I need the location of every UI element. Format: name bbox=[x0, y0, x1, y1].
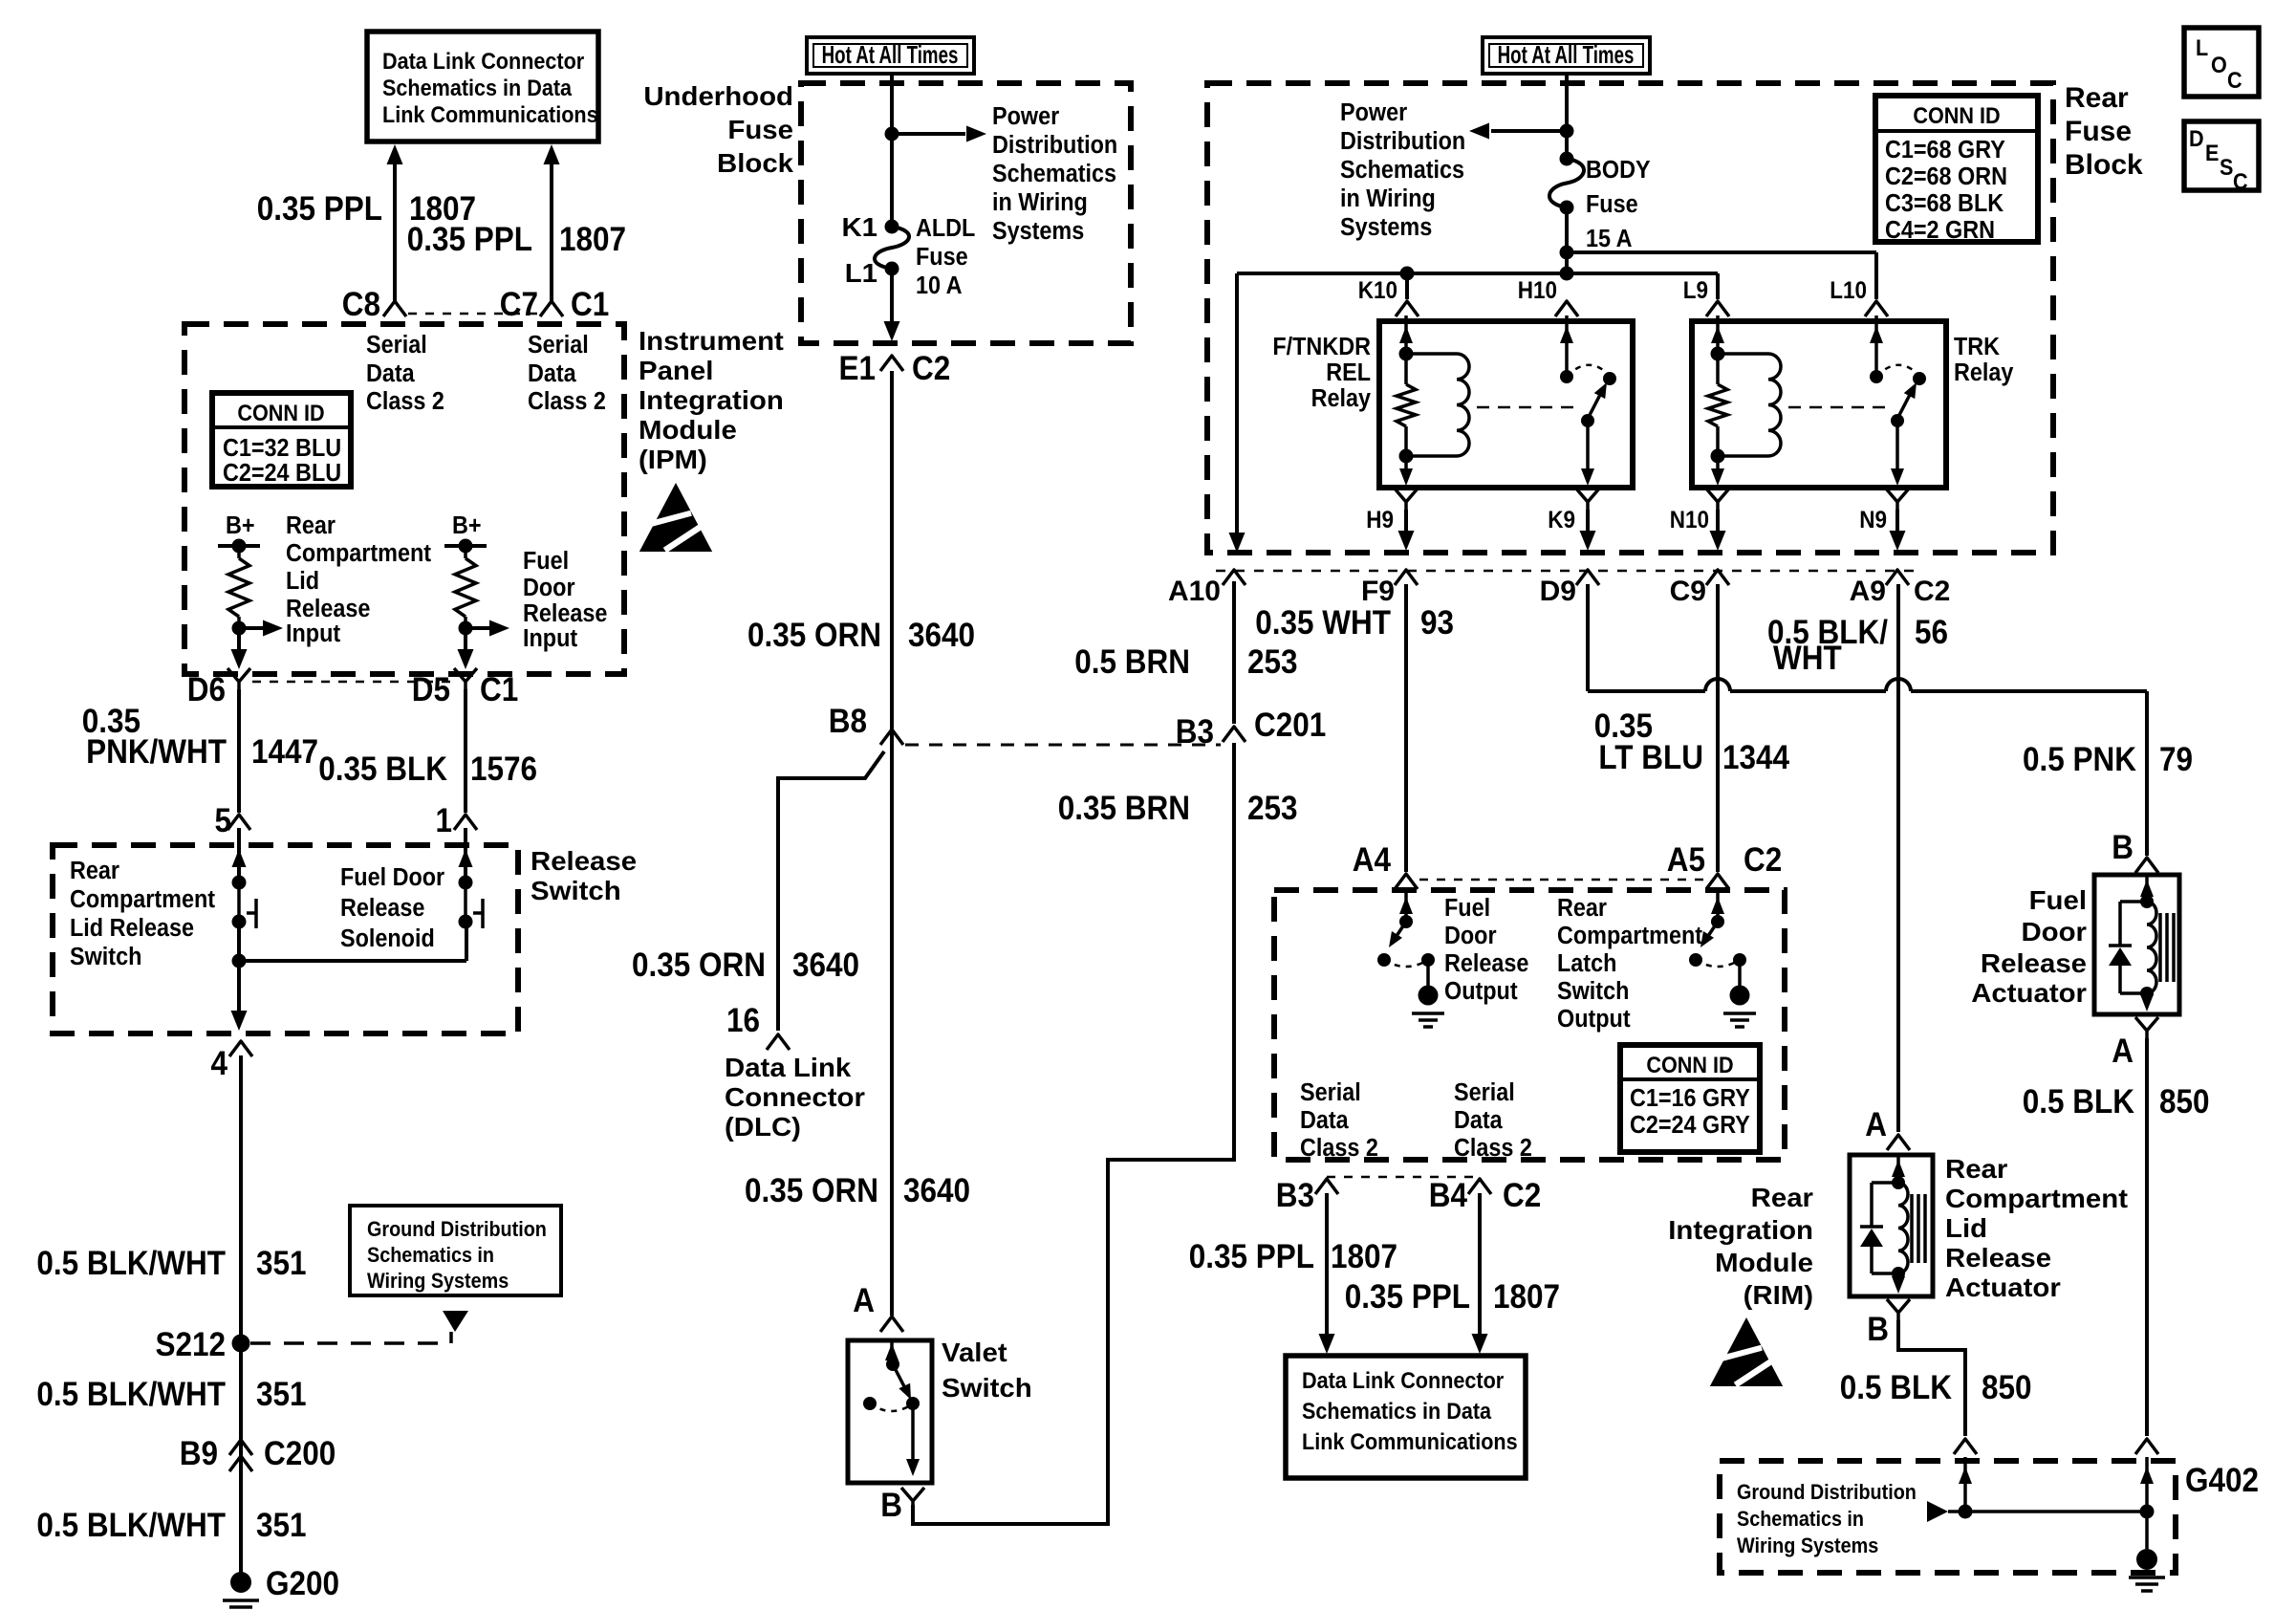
svg-text:0.35 ORN: 0.35 ORN bbox=[632, 947, 766, 985]
pin into G402 from rear lid actuator bbox=[1954, 1439, 1977, 1512]
label Rear Compartment Lid Release Input bbox=[286, 512, 431, 647]
Underhood Fuse Block dashed box bbox=[801, 83, 1131, 343]
svg-text:Serial: Serial bbox=[1454, 1079, 1515, 1106]
svg-text:Module: Module bbox=[1715, 1249, 1813, 1278]
pin A of valet switch bbox=[853, 1283, 903, 1332]
wire label 0.35 PNK/WHT 1447 bbox=[82, 704, 318, 772]
svg-text:Output: Output bbox=[1557, 1006, 1631, 1033]
connector dashed line C8-C7 bbox=[408, 313, 538, 315]
F/TNKDR relay switch bbox=[1560, 315, 1616, 486]
svg-text:Wiring Systems: Wiring Systems bbox=[367, 1270, 509, 1293]
pin F9 bbox=[1361, 570, 1418, 607]
pin A10 bbox=[1168, 570, 1245, 607]
svg-text:Lid: Lid bbox=[1945, 1214, 1987, 1244]
pin 4 of release switch bbox=[210, 1041, 252, 1082]
Valet Switch box bbox=[848, 1340, 932, 1483]
svg-text:C200: C200 bbox=[264, 1436, 336, 1473]
svg-text:G402: G402 bbox=[2185, 1463, 2259, 1500]
svg-text:(RIM): (RIM) bbox=[1744, 1281, 1813, 1311]
pin A5 of RIM connector C2 bbox=[1667, 842, 1783, 889]
svg-text:Compartment: Compartment bbox=[1557, 923, 1702, 949]
svg-text:C: C bbox=[2233, 168, 2248, 194]
wire label 0.35 BRN 253 bbox=[1058, 791, 1298, 828]
F/TNKDR REL Relay title bbox=[1272, 334, 1371, 412]
svg-text:Distribution: Distribution bbox=[1340, 128, 1465, 155]
svg-text:F/TNKDR: F/TNKDR bbox=[1272, 334, 1371, 360]
svg-text:Solenoid: Solenoid bbox=[340, 925, 435, 952]
pin L10 of rear fuse block bbox=[1830, 277, 1888, 316]
svg-text:A4: A4 bbox=[1353, 842, 1392, 880]
svg-text:B3: B3 bbox=[1176, 714, 1214, 751]
svg-text:Switch: Switch bbox=[531, 877, 621, 906]
rear compartment lid release switch contacts bbox=[232, 828, 257, 929]
wire label 0.5 BLK 850 (fuel door actuator) bbox=[2023, 1084, 2210, 1121]
svg-text:Door: Door bbox=[523, 575, 575, 601]
svg-text:Data Link Connector: Data Link Connector bbox=[1302, 1367, 1504, 1393]
svg-text:Schematics in Data: Schematics in Data bbox=[382, 75, 572, 100]
svg-text:0.35 ORN: 0.35 ORN bbox=[745, 1173, 878, 1210]
svg-text:Release: Release bbox=[531, 847, 637, 877]
Hot At All Times callout (underhood) bbox=[807, 37, 974, 74]
svg-text:Serial: Serial bbox=[366, 332, 427, 359]
svg-text:D: D bbox=[2189, 125, 2204, 151]
svg-text:Systems: Systems bbox=[992, 218, 1084, 245]
svg-text:0.5 BLK/WHT: 0.5 BLK/WHT bbox=[36, 1508, 226, 1545]
power distribution tap arrow bbox=[892, 126, 986, 142]
label Serial Data Class 2 (RIM B3) bbox=[1300, 1079, 1378, 1162]
pin 5 of release switch bbox=[214, 803, 250, 840]
wire from ALDL fuse to E1 with down arrow bbox=[884, 269, 900, 341]
fuel door release output switch (RIM) bbox=[1377, 889, 1444, 1027]
svg-text:S212: S212 bbox=[155, 1327, 226, 1364]
svg-text:Switch: Switch bbox=[1557, 978, 1629, 1005]
svg-text:Release: Release bbox=[523, 600, 607, 627]
wire from switch common to pin 4 with down arrow bbox=[231, 961, 248, 1031]
B+ supply for rear compartment lid release input bbox=[218, 512, 260, 554]
svg-text:Class 2: Class 2 bbox=[1454, 1135, 1532, 1162]
pin B of rear compartment lid release actuator bbox=[1867, 1299, 1910, 1348]
svg-text:Data: Data bbox=[528, 360, 576, 387]
wire label 0.5 BLK/WHT 56 bbox=[1767, 615, 1948, 678]
wire B4 to data link schematics box bbox=[1472, 1193, 1488, 1354]
Rear Integration Module (RIM) dashed box bbox=[1274, 890, 1785, 1160]
ground G200 bbox=[223, 1566, 339, 1610]
svg-text:0.35 WHT: 0.35 WHT bbox=[1255, 605, 1391, 642]
label Fuel Door Release Input bbox=[523, 548, 607, 652]
pin B3 of RIM bbox=[1276, 1178, 1338, 1215]
Release Switch title bbox=[531, 847, 637, 906]
wire B3 to pin A10 bbox=[1232, 581, 1236, 724]
svg-text:Hot At All Times: Hot At All Times bbox=[822, 40, 959, 69]
svg-text:0.5 BLK: 0.5 BLK bbox=[1840, 1370, 1952, 1407]
splice S212 with dashed tap line bbox=[155, 1327, 451, 1364]
svg-text:Input: Input bbox=[523, 625, 577, 652]
svg-text:A: A bbox=[2112, 1033, 2134, 1071]
wire label 0.35 PPL 1807 (B3) bbox=[1189, 1239, 1397, 1276]
svg-text:Integration: Integration bbox=[1668, 1216, 1813, 1246]
svg-text:Serial: Serial bbox=[528, 332, 589, 359]
pin A4 of RIM bbox=[1353, 842, 1418, 889]
in-line connector B3 C201 bbox=[1176, 707, 1327, 751]
switch common wire and junction bbox=[232, 922, 467, 968]
svg-text:B: B bbox=[880, 1488, 902, 1525]
svg-text:C1: C1 bbox=[480, 672, 518, 709]
svg-text:10 A: 10 A bbox=[916, 272, 963, 299]
wire label 0.35 WHT 93 bbox=[1255, 605, 1454, 642]
svg-text:E: E bbox=[2205, 140, 2219, 165]
label Rear Compartment Latch Switch Output bbox=[1557, 895, 1702, 1033]
svg-text:Link Communications: Link Communications bbox=[382, 101, 598, 127]
svg-text:1344: 1344 bbox=[1722, 740, 1790, 777]
svg-text:C4=2 GRN: C4=2 GRN bbox=[1885, 217, 1995, 244]
svg-text:C1=68 GRY: C1=68 GRY bbox=[1885, 137, 2005, 163]
svg-text:Rear: Rear bbox=[1751, 1184, 1813, 1213]
svg-text:Connector: Connector bbox=[725, 1083, 865, 1113]
connector dashed line A4-A5 bbox=[1419, 879, 1704, 881]
svg-text:0.5 BLK/WHT: 0.5 BLK/WHT bbox=[36, 1246, 226, 1283]
wire B3 to data link schematics box bbox=[1319, 1193, 1335, 1354]
G402 ground distribution dashed box bbox=[1720, 1461, 2176, 1573]
wire C8 to DLC schematics box with up arrow bbox=[387, 144, 403, 301]
svg-text:S: S bbox=[2220, 154, 2233, 180]
svg-text:K1: K1 bbox=[841, 213, 877, 243]
branch wire to data link connector pin 16 bbox=[778, 751, 884, 1031]
svg-text:Door: Door bbox=[1444, 923, 1497, 949]
pin D6 of IPM bbox=[187, 668, 250, 708]
reference box: Data Link Connector Schematics in Data Link Communications (top left) bbox=[367, 32, 598, 141]
ground G402 symbol bbox=[2129, 1549, 2165, 1591]
wire label 0.5 BLK 850 (rear lid actuator) bbox=[1840, 1370, 2032, 1407]
svg-text:0.35 PPL: 0.35 PPL bbox=[407, 222, 532, 259]
svg-text:1447: 1447 bbox=[251, 734, 318, 772]
svg-text:in Wiring: in Wiring bbox=[1340, 185, 1436, 212]
Rear Integration Module (RIM) title bbox=[1668, 1184, 1813, 1311]
svg-text:A: A bbox=[853, 1283, 875, 1320]
svg-text:Compartment: Compartment bbox=[1945, 1185, 2128, 1214]
svg-text:Ground Distribution: Ground Distribution bbox=[1737, 1481, 1917, 1504]
svg-text:CONN ID: CONN ID bbox=[1913, 102, 2000, 128]
svg-text:Fuse: Fuse bbox=[2065, 116, 2132, 147]
svg-text:Underhood: Underhood bbox=[643, 82, 793, 112]
Instrument Panel Integration Module (IPM) dashed box bbox=[184, 324, 624, 674]
svg-text:16: 16 bbox=[726, 1003, 760, 1040]
label Data Link Connector (DLC) bbox=[725, 1054, 865, 1142]
label G402 bbox=[2185, 1463, 2259, 1500]
svg-text:N9: N9 bbox=[1859, 507, 1887, 533]
wire D9 to fuel door release actuator B (0.5 PNK 79) bbox=[1588, 584, 2147, 856]
svg-text:Output: Output bbox=[1444, 978, 1518, 1005]
svg-text:Fuse: Fuse bbox=[916, 244, 968, 271]
svg-text:Block: Block bbox=[717, 149, 793, 179]
svg-text:0.35 PPL: 0.35 PPL bbox=[1189, 1239, 1314, 1276]
svg-text:A9: A9 bbox=[1850, 576, 1886, 607]
pin H9 of rear fuse block bbox=[1366, 489, 1418, 551]
svg-text:Module: Module bbox=[639, 416, 737, 446]
svg-text:Wiring Systems: Wiring Systems bbox=[1737, 1534, 1878, 1557]
svg-text:Rear: Rear bbox=[286, 512, 336, 539]
svg-text:Data: Data bbox=[1454, 1107, 1503, 1134]
svg-text:C8: C8 bbox=[342, 287, 380, 324]
svg-text:1576: 1576 bbox=[470, 751, 537, 789]
svg-text:Data Link: Data Link bbox=[725, 1054, 851, 1083]
svg-text:0.35 BLK: 0.35 BLK bbox=[318, 751, 447, 789]
ground wire rear lid actuator B to G402 (0.5 BLK 850) bbox=[1898, 1320, 1965, 1436]
svg-text:3640: 3640 bbox=[792, 947, 859, 985]
reference box: Data Link Connector Schematics in Data Link Communications (bottom) bbox=[1286, 1356, 1526, 1478]
label Fuel Door Release Output bbox=[1444, 895, 1528, 1005]
svg-text:B3: B3 bbox=[1276, 1178, 1314, 1215]
CONN ID table (rear fuse block) bbox=[1875, 96, 2038, 244]
svg-text:LT BLU: LT BLU bbox=[1598, 740, 1703, 777]
wire label 0.35 PPL 1807 (B4) bbox=[1345, 1279, 1560, 1316]
svg-text:K10: K10 bbox=[1358, 277, 1397, 304]
svg-text:Instrument: Instrument bbox=[639, 327, 784, 357]
svg-text:D6: D6 bbox=[187, 672, 226, 709]
Fuel Door Release Actuator box bbox=[2094, 875, 2179, 1014]
pin A of rear compartment lid release actuator bbox=[1865, 1107, 1910, 1150]
TRK Relay title bbox=[1954, 334, 2014, 386]
svg-text:C: C bbox=[2227, 67, 2242, 93]
rear compartment lid release actuator coil and diode bbox=[1860, 1155, 1925, 1294]
TRK relay switch bbox=[1870, 315, 1926, 486]
svg-text:C2: C2 bbox=[912, 351, 950, 388]
svg-text:Fuel Door: Fuel Door bbox=[340, 864, 444, 891]
svg-text:B+: B+ bbox=[452, 512, 482, 539]
wire label 0.5 PNK 79 bbox=[2023, 742, 2193, 779]
svg-text:A10: A10 bbox=[1168, 576, 1221, 607]
svg-text:C2: C2 bbox=[1503, 1178, 1541, 1215]
svg-text:1807: 1807 bbox=[559, 222, 626, 259]
wire E1 to valet switch pin A (0.35 ORN 3640) bbox=[890, 371, 894, 1316]
svg-text:C2=24 GRY: C2=24 GRY bbox=[1630, 1112, 1750, 1139]
connector dashed line D6-D5 bbox=[252, 681, 452, 684]
svg-text:1: 1 bbox=[435, 803, 452, 840]
svg-text:B: B bbox=[2112, 830, 2134, 867]
svg-text:C2: C2 bbox=[1914, 576, 1950, 607]
pin K10 of rear fuse block bbox=[1358, 277, 1419, 316]
connector dashed line under rear fuse block bbox=[1216, 570, 1917, 573]
svg-text:0.35 PPL: 0.35 PPL bbox=[1345, 1279, 1470, 1316]
svg-text:Power: Power bbox=[1340, 99, 1408, 126]
rear compartment latch switch output (RIM) bbox=[1689, 889, 1756, 1027]
pin N9 of rear fuse block bbox=[1859, 489, 1909, 551]
Rear Compartment Lid Release Actuator title bbox=[1945, 1155, 2128, 1303]
pin K9 of rear fuse block bbox=[1548, 489, 1599, 551]
svg-text:Serial: Serial bbox=[1300, 1079, 1361, 1106]
pin D5 of IPM connector C1 bbox=[412, 668, 519, 708]
wire D5 to release switch pin 1 bbox=[464, 689, 467, 813]
svg-text:H10: H10 bbox=[1518, 277, 1557, 304]
svg-text:(DLC): (DLC) bbox=[725, 1113, 801, 1142]
svg-text:C1: C1 bbox=[571, 287, 609, 324]
ESD sensitivity symbol (IPM) bbox=[639, 483, 713, 552]
svg-text:Compartment: Compartment bbox=[70, 886, 215, 913]
svg-text:REL: REL bbox=[1326, 359, 1371, 386]
wire label 0.35 ORN 3640 (DLC branch) bbox=[632, 947, 859, 985]
wire valet switch B to rear fuse block A10 via C201 B3 (0.35 BRN 253) bbox=[913, 743, 1234, 1524]
wire label 0.5 BLK/WHT 351 (upper) bbox=[36, 1246, 306, 1283]
pin C9 bbox=[1670, 570, 1729, 607]
svg-text:Fuse: Fuse bbox=[727, 116, 793, 145]
svg-text:3640: 3640 bbox=[903, 1173, 970, 1210]
fuel door release switch contacts bbox=[459, 828, 484, 929]
svg-text:Fuel: Fuel bbox=[523, 548, 569, 575]
wire label 0.35 ORN 3640 (lower) bbox=[745, 1173, 970, 1210]
connector C201 dashed line B8 to B3 bbox=[905, 744, 1221, 747]
svg-text:15 A: 15 A bbox=[1586, 226, 1633, 252]
pin B4 of RIM connector C2 bbox=[1429, 1178, 1542, 1215]
svg-text:C7: C7 bbox=[500, 287, 538, 324]
fuse ALDL 10A between terminals K1 and L1 bbox=[841, 213, 975, 300]
wire label 0.35 PPL 1807 (C8 wire) bbox=[257, 191, 476, 228]
resistor R (rear compartment lid release input pull-up) bbox=[228, 546, 249, 628]
svg-text:Input: Input bbox=[286, 620, 340, 647]
pin B of valet switch bbox=[880, 1488, 924, 1525]
label Rear Compartment Lid Release Switch bbox=[70, 858, 215, 970]
reference text: Ground Distribution Schematics in Wiring Systems (G402) bbox=[1737, 1481, 1917, 1557]
relay K2 TRK Relay box bbox=[1692, 321, 1946, 488]
ground wire pin 4 to G200 bbox=[239, 1055, 243, 1574]
TRK relay mechanical link bbox=[1788, 406, 1891, 409]
label Serial Data Class 2 (C8 pin) bbox=[366, 332, 444, 415]
Rear Compartment Lid Release Actuator box bbox=[1850, 1155, 1933, 1296]
connector dashed line B3-B4 under RIM bbox=[1327, 1176, 1480, 1179]
wire label 0.35 PPL 1807 (C7 wire) bbox=[407, 222, 626, 259]
reference box: Ground Distribution Schematics in Wiring Systems (left) bbox=[350, 1206, 561, 1295]
svg-text:Compartment: Compartment bbox=[286, 540, 431, 567]
svg-text:1807: 1807 bbox=[1331, 1239, 1397, 1276]
svg-text:L10: L10 bbox=[1830, 277, 1867, 304]
reference text: Power Distribution Schematics in Wiring Systems (rear) bbox=[1340, 99, 1465, 241]
wire down from fuel door release input to pin D5 bbox=[458, 628, 474, 669]
wire label 0.5 BLK/WHT 351 (middle) bbox=[36, 1377, 306, 1414]
pin 16 of data link connector bbox=[726, 1003, 790, 1050]
svg-text:N10: N10 bbox=[1670, 507, 1709, 533]
svg-text:Systems: Systems bbox=[1340, 214, 1432, 241]
svg-text:Lid: Lid bbox=[286, 568, 319, 595]
svg-text:0.5 BLK: 0.5 BLK bbox=[2023, 1084, 2134, 1121]
pin L9 of rear fuse block bbox=[1683, 277, 1729, 316]
svg-text:WHT: WHT bbox=[1773, 641, 1842, 678]
svg-text:H9: H9 bbox=[1366, 507, 1394, 533]
svg-text:Lid Release: Lid Release bbox=[70, 915, 194, 942]
power distribution tap arrow (rear) bbox=[1469, 123, 1567, 140]
svg-text:Rear: Rear bbox=[1557, 895, 1607, 922]
svg-text:BODY: BODY bbox=[1586, 157, 1651, 184]
wire A9 to rear compartment lid release actuator A (0.5 BLK/WHT 56) bbox=[1896, 584, 1900, 1132]
pin C8 of IPM bbox=[342, 287, 406, 324]
svg-text:C1=32 BLU: C1=32 BLU bbox=[223, 435, 341, 462]
pin into G402 from fuel door actuator bbox=[2135, 1439, 2158, 1549]
bus wire from BODY fuse to relay feeds bbox=[1237, 207, 1876, 535]
svg-text:Schematics in: Schematics in bbox=[367, 1244, 494, 1267]
svg-text:B9: B9 bbox=[180, 1436, 218, 1473]
svg-text:Rear: Rear bbox=[70, 858, 119, 884]
TRK relay coil and resistor bbox=[1708, 315, 1781, 486]
svg-text:(IPM): (IPM) bbox=[639, 446, 707, 475]
pin D9 bbox=[1540, 570, 1599, 607]
svg-text:253: 253 bbox=[1247, 644, 1298, 682]
svg-text:Schematics in: Schematics in bbox=[1737, 1508, 1864, 1531]
svg-text:Distribution: Distribution bbox=[992, 132, 1117, 159]
F/TNKDR relay mechanical link bbox=[1477, 406, 1579, 409]
svg-text:Data Link Connector: Data Link Connector bbox=[382, 48, 584, 74]
svg-text:A5: A5 bbox=[1667, 842, 1705, 880]
svg-text:C2=24 BLU: C2=24 BLU bbox=[223, 460, 341, 487]
svg-text:PNK/WHT: PNK/WHT bbox=[86, 734, 227, 772]
Valet Switch title bbox=[942, 1338, 1032, 1403]
Release Switch dashed box bbox=[53, 845, 518, 1033]
svg-text:0.35 PPL: 0.35 PPL bbox=[257, 191, 382, 228]
svg-text:Switch: Switch bbox=[942, 1374, 1032, 1403]
svg-text:F9: F9 bbox=[1361, 576, 1395, 607]
IPM title text bbox=[639, 327, 784, 475]
svg-text:Class 2: Class 2 bbox=[1300, 1135, 1378, 1162]
pin 1 of release switch bbox=[435, 803, 477, 840]
svg-text:Link Communications: Link Communications bbox=[1302, 1428, 1518, 1454]
svg-text:C9: C9 bbox=[1670, 576, 1706, 607]
svg-text:Actuator: Actuator bbox=[1971, 979, 2087, 1009]
LOC legend box bbox=[2184, 28, 2259, 97]
pin H10 of rear fuse block bbox=[1518, 277, 1578, 316]
svg-text:L1: L1 bbox=[845, 259, 877, 289]
wire label 0.35 BLK 1576 bbox=[318, 751, 537, 789]
svg-text:Schematics: Schematics bbox=[1340, 157, 1464, 184]
svg-text:C1=16 GRY: C1=16 GRY bbox=[1630, 1085, 1750, 1112]
reference text: Power Distribution Schematics in Wiring Systems (underhood) bbox=[992, 103, 1117, 245]
DESC legend box bbox=[2184, 121, 2259, 194]
ESD sensitivity symbol (RIM) bbox=[1710, 1317, 1784, 1386]
svg-text:B8: B8 bbox=[829, 704, 867, 741]
Underhood Fuse Block title bbox=[643, 82, 793, 179]
wire F9 to RIM A4 (0.35 WHT 93) bbox=[1404, 584, 1408, 872]
svg-text:B+: B+ bbox=[226, 512, 255, 539]
svg-text:A: A bbox=[1865, 1107, 1887, 1144]
svg-text:3640: 3640 bbox=[908, 618, 975, 655]
wire label 0.35 ORN 3640 (upper) bbox=[747, 618, 975, 655]
svg-text:O: O bbox=[2211, 52, 2227, 77]
svg-text:5: 5 bbox=[214, 803, 231, 840]
Hot At All Times callout (rear) bbox=[1483, 37, 1650, 74]
fuel door release actuator coil and diode bbox=[2109, 875, 2174, 1012]
wire label 0.5 BRN 253 bbox=[1074, 644, 1297, 682]
svg-text:Release: Release bbox=[340, 895, 424, 922]
wire D6 to release switch pin 5 bbox=[237, 689, 241, 813]
Rear Fuse Block dashed box bbox=[1207, 83, 2053, 553]
pin A of fuel door release actuator bbox=[2112, 1017, 2158, 1070]
F/TNKDR relay coil and resistor bbox=[1397, 315, 1469, 486]
pin B of fuel door release actuator bbox=[2112, 830, 2158, 873]
svg-text:Relay: Relay bbox=[1954, 359, 2014, 386]
svg-text:Rear: Rear bbox=[1945, 1155, 2007, 1185]
ground wire fuel door actuator A to G402 (0.5 BLK 850) bbox=[2145, 1038, 2149, 1436]
svg-text:Block: Block bbox=[2065, 149, 2143, 181]
svg-text:Integration: Integration bbox=[639, 386, 784, 416]
G402 internal ground bus with pointer bbox=[1927, 1501, 2155, 1522]
svg-text:L9: L9 bbox=[1683, 277, 1708, 304]
svg-text:1807: 1807 bbox=[1493, 1279, 1560, 1316]
pin C7 of IPM connector C1 bbox=[500, 287, 610, 324]
valet switch internal contacts bbox=[863, 1340, 920, 1476]
svg-text:Switch: Switch bbox=[70, 944, 141, 970]
svg-text:B4: B4 bbox=[1429, 1178, 1468, 1215]
feed wire from hot at all times into fuse block bbox=[885, 74, 899, 227]
svg-text:351: 351 bbox=[256, 1508, 307, 1545]
svg-text:CONN ID: CONN ID bbox=[1646, 1052, 1733, 1077]
svg-text:Schematics: Schematics bbox=[992, 161, 1116, 187]
svg-text:Data: Data bbox=[1300, 1107, 1349, 1134]
wire label 0.5 BLK/WHT 351 (lower) bbox=[36, 1508, 306, 1545]
